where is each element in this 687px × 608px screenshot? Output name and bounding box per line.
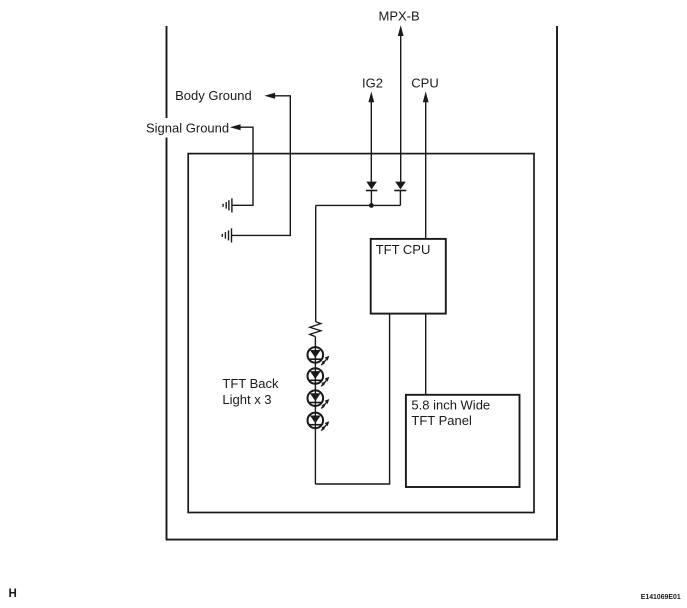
svg-text:Signal Ground: Signal Ground (146, 120, 229, 135)
ground symbol 2 (body) (222, 228, 231, 242)
wire TFT CPU to TFT panel (425, 314, 427, 395)
LED 4 (308, 413, 330, 431)
resistor (310, 322, 321, 337)
LED 2 (308, 368, 330, 386)
svg-text:TFT CPU: TFT CPU (376, 242, 431, 257)
diode D2 (MPX-B) (395, 182, 406, 190)
LED 1 (308, 347, 330, 365)
wire junction down to resistor (315, 205, 317, 321)
svg-text:TFT Back: TFT Back (222, 376, 279, 391)
wire diode junction rail (316, 204, 401, 206)
diode D1 (IG2) (366, 182, 377, 190)
inner enclosure (188, 154, 534, 513)
junction node (369, 203, 374, 208)
wire LED return to TFT CPU (315, 314, 389, 484)
wire Signal Ground with arrow (232, 127, 253, 205)
svg-text:TFT Panel: TFT Panel (411, 413, 472, 428)
LED chain vertical wire (314, 347, 316, 484)
TFT panel box (406, 395, 520, 487)
wire CPU with arrow (425, 99, 427, 239)
outer enclosure (166, 26, 558, 540)
svg-text:H: H (9, 588, 17, 600)
svg-text:IG2: IG2 (362, 75, 383, 90)
svg-text:Body Ground: Body Ground (175, 88, 252, 103)
svg-text:Light x 3: Light x 3 (222, 392, 271, 407)
svg-text:E141069E01: E141069E01 (641, 594, 681, 601)
LED 3 (308, 390, 330, 408)
svg-text:CPU: CPU (411, 75, 438, 90)
svg-text:5.8 inch Wide: 5.8 inch Wide (411, 398, 490, 413)
ground symbol 1 (signal) (223, 198, 232, 212)
svg-text:MPX-B: MPX-B (379, 9, 420, 24)
wire resistor to LED chain (314, 337, 316, 347)
wire MPX-B with arrow (400, 33, 402, 182)
TFT CPU box (371, 239, 446, 314)
wire Body Ground with arrow (232, 96, 291, 236)
wire IG2 with arrow (370, 99, 372, 182)
